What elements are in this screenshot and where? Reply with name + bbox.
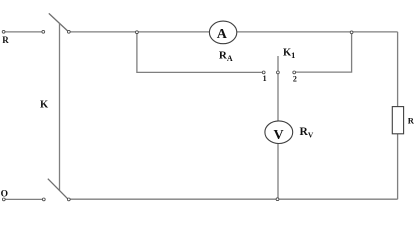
switch K bottom blade <box>48 179 68 199</box>
svg-text:R: R <box>2 35 9 45</box>
svg-text:1: 1 <box>263 74 267 83</box>
ammeter A <box>209 21 236 44</box>
terminal O <box>2 198 5 201</box>
wire right side <box>397 32 399 199</box>
switch K1 contact 2 <box>293 71 296 74</box>
svg-text:R: R <box>408 116 415 126</box>
wire contact 2 to top node <box>296 33 352 73</box>
junction node on top wire at ammeter output <box>350 31 353 34</box>
svg-text:K: K <box>40 100 49 111</box>
wire R terminal to switch K top contact <box>5 31 42 33</box>
switch K bottom contact <box>42 198 45 201</box>
junction node on top wire at ammeter input <box>136 31 139 34</box>
terminal R <box>2 30 5 33</box>
wire O terminal to switch K bottom contact <box>5 198 42 200</box>
resistor R <box>392 107 403 134</box>
wire top main <box>70 31 397 33</box>
svg-text:K1: K1 <box>283 48 295 60</box>
switch K top contact <box>42 30 45 33</box>
switch K bottom throw contact <box>67 198 70 201</box>
wire switch K1 pole <box>277 56 279 121</box>
voltmeter V <box>265 121 293 144</box>
svg-text:RV: RV <box>300 126 314 140</box>
svg-text:O: O <box>1 190 8 200</box>
switch K1 contact 1 <box>262 71 265 74</box>
svg-text:2: 2 <box>293 74 297 83</box>
switch K top blade <box>49 13 68 31</box>
svg-text:V: V <box>274 128 284 143</box>
wire ammeter bypass to contact 1 <box>137 33 262 73</box>
junction node on bottom wire <box>276 198 279 201</box>
switch K1 pole contact <box>277 71 280 74</box>
switch K link wire <box>59 23 61 190</box>
switch K top throw contact <box>67 30 70 33</box>
svg-text:RA: RA <box>219 49 233 63</box>
wire voltmeter to bottom node <box>277 143 279 199</box>
wire bottom main <box>70 198 398 200</box>
svg-text:A: A <box>217 27 228 42</box>
